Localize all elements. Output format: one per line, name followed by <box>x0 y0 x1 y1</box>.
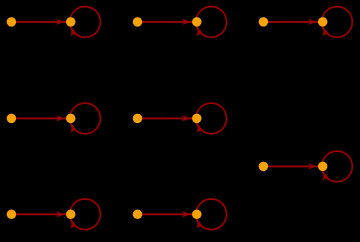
wire G: edge from node G1 to node G2 <box>11 213 66 215</box>
arrowhead on self-loop B <box>194 26 203 36</box>
node F2 (right, fixed point) <box>318 162 328 172</box>
arrowhead on self-loop D <box>68 123 77 133</box>
arrowhead on wire H <box>182 211 190 217</box>
wire A: edge from node A1 to node A2 <box>11 21 66 23</box>
arrowhead on wire A <box>56 19 64 25</box>
arrowhead on wire F <box>308 163 316 169</box>
wire D: edge from node D1 to node D2 <box>11 117 66 119</box>
node H1 (left) <box>133 210 143 220</box>
arrowhead on self-loop H <box>194 219 203 229</box>
arrowhead on wire D <box>56 115 64 121</box>
self-loop at node D2 <box>70 103 101 134</box>
self-loop at node H2 <box>196 199 227 230</box>
self-loop at node B2 <box>196 7 227 38</box>
node C1 (left) <box>259 17 269 27</box>
node E1 (left) <box>133 114 143 124</box>
self-loop at node C2 <box>322 7 353 38</box>
self-loop at node A2 <box>70 7 101 38</box>
node D2 (right, fixed point) <box>66 114 76 124</box>
arrowhead on wire E <box>182 115 190 121</box>
wire B: edge from node B1 to node B2 <box>138 21 193 23</box>
node F1 (left) <box>259 162 269 172</box>
self-loop at node F2 <box>322 151 353 182</box>
arrowhead on self-loop F <box>320 171 329 181</box>
arrowhead on wire G <box>56 211 64 217</box>
arrowhead on self-loop A <box>68 26 77 36</box>
wire F: edge from node F1 to node F2 <box>263 165 318 167</box>
node H2 (right, fixed point) <box>192 210 202 220</box>
arrowhead on self-loop E <box>194 123 203 133</box>
wire C: edge from node C1 to node C2 <box>263 21 318 23</box>
node D1 (left) <box>7 114 17 124</box>
node A2 (right, fixed point) <box>66 17 76 27</box>
wire H: edge from node H1 to node H2 <box>138 213 193 215</box>
node G1 (left) <box>7 210 17 220</box>
arrowhead on wire B <box>182 19 190 25</box>
node C2 (right, fixed point) <box>318 17 328 27</box>
node A1 (left) <box>7 17 17 27</box>
self-loop at node G2 <box>70 199 101 230</box>
arrowhead on self-loop C <box>320 26 329 36</box>
node E2 (right, fixed point) <box>192 114 202 124</box>
wire E: edge from node E1 to node E2 <box>138 117 193 119</box>
node B2 (right, fixed point) <box>192 17 202 27</box>
arrowhead on self-loop G <box>68 219 77 229</box>
self-loop at node E2 <box>196 103 227 134</box>
node G2 (right, fixed point) <box>66 210 76 220</box>
node B1 (left) <box>133 17 143 27</box>
arrowhead on wire C <box>308 19 316 25</box>
